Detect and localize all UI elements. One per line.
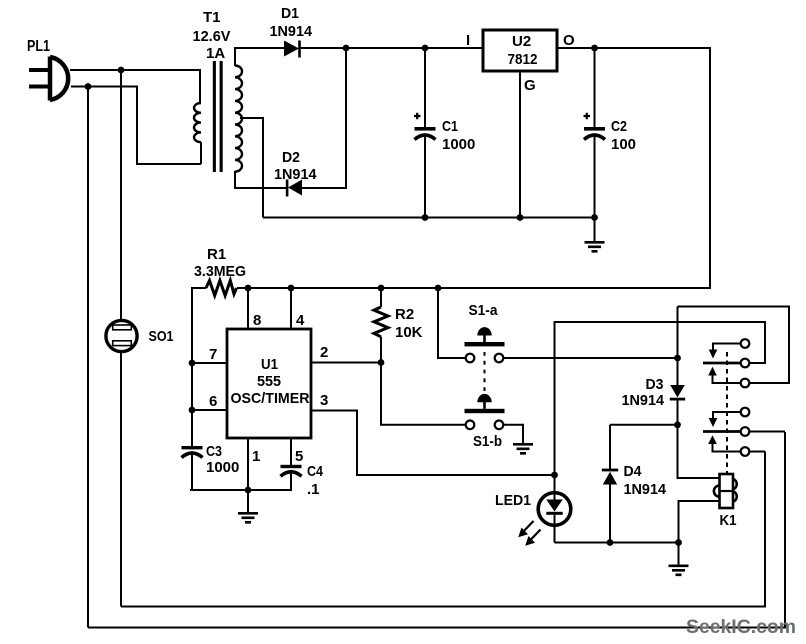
wire AC line1 vertical through SO1	[120, 70, 122, 321]
wire pin 2	[311, 362, 381, 364]
svg-text:7: 7	[209, 346, 217, 363]
node C1 top	[422, 45, 429, 52]
svg-text:SO1: SO1	[149, 328, 174, 345]
node line2 junction	[85, 83, 92, 90]
wire pin 4	[290, 288, 292, 329]
diode D4	[602, 425, 667, 543]
node pin2 / R2 bottom	[378, 359, 385, 366]
wire pin3 net vertical / relay common net	[555, 322, 766, 475]
capacitor C3	[182, 443, 240, 490]
wire 555 bottom rail	[190, 489, 292, 491]
wire pin 7	[192, 362, 227, 364]
wire pin2 node to S1-b	[381, 363, 466, 425]
wire coil top feed	[678, 425, 720, 478]
wire D3 top vertical	[677, 307, 679, 359]
wire pin 6	[192, 409, 227, 411]
op-amp U1 555 timer box	[227, 329, 311, 438]
node pin3 LED junction	[551, 472, 558, 479]
svg-text:U2: U2	[512, 33, 531, 50]
relay contact group 1	[703, 339, 749, 387]
wire LED bottom rail	[555, 542, 679, 544]
wire coil bottom to ground	[679, 501, 720, 543]
node D4 bottom	[607, 539, 614, 546]
capacitor C2	[584, 48, 637, 218]
svg-text:1N914: 1N914	[274, 166, 317, 183]
wire AC line1 bottom rail	[121, 452, 765, 607]
svg-text:S1-a: S1-a	[469, 302, 499, 319]
svg-text:D3: D3	[646, 376, 664, 393]
svg-text:C2: C2	[611, 118, 627, 135]
svg-text:PL1: PL1	[27, 38, 50, 55]
wire U2 output	[237, 48, 710, 288]
wire contact2 bottom to inner rail	[749, 451, 765, 453]
node relay ground	[675, 539, 682, 546]
svg-text:1N914: 1N914	[624, 481, 667, 498]
svg-text:2: 2	[320, 344, 328, 361]
svg-text:3: 3	[320, 392, 328, 409]
wire D4 top to coil node	[610, 424, 678, 426]
wire U2 ground pin	[519, 71, 521, 218]
relay coil K1	[714, 474, 737, 529]
svg-text:100: 100	[611, 136, 636, 153]
wire center tap	[240, 118, 263, 218]
node pin4 rail	[288, 285, 295, 292]
wire contact2 common to outer rail	[749, 431, 785, 433]
svg-text:C3: C3	[206, 443, 222, 460]
wire S1-a to D3 node	[504, 357, 678, 359]
node S1-a / D3 junction	[674, 355, 681, 362]
wire D1 cathode to U2 input rail	[300, 47, 483, 49]
svg-text:1000: 1000	[442, 136, 475, 153]
wire +12V rail drop to S1-a	[438, 288, 466, 358]
ground below C2	[585, 218, 605, 252]
ground relay	[669, 543, 689, 575]
ground below S1-b	[513, 444, 533, 453]
wire AC line2 vertical	[87, 87, 89, 628]
wire pin 8	[247, 288, 249, 329]
wire secondary bottom to D2	[235, 171, 286, 188]
wire S1 dashed link	[484, 352, 486, 391]
svg-text:OSC/TIMER: OSC/TIMER	[231, 390, 310, 407]
node line1 junction	[118, 67, 125, 74]
svg-text:D4: D4	[624, 463, 643, 480]
plug PL1	[27, 38, 68, 101]
svg-text:K1: K1	[720, 512, 737, 529]
svg-text:7812: 7812	[508, 51, 538, 68]
svg-text:S1-b: S1-b	[473, 433, 502, 450]
svg-text:O: O	[563, 32, 575, 49]
svg-text:R1: R1	[207, 246, 226, 263]
svg-text:1N914: 1N914	[622, 392, 665, 409]
capacitor C1	[414, 48, 475, 218]
svg-text:SeekIC.com: SeekIC.com	[686, 616, 796, 638]
wire relay mechanical dashed link	[726, 352, 728, 474]
wire pin 3	[311, 411, 555, 476]
svg-text:555: 555	[257, 373, 281, 390]
svg-text:.1: .1	[307, 481, 320, 498]
node C2 bottom	[591, 214, 598, 221]
node pin8 rail	[245, 285, 252, 292]
wire pin 1	[247, 438, 249, 490]
relay contact group 2	[703, 408, 749, 456]
svg-text:C1: C1	[442, 118, 458, 135]
svg-text:1: 1	[252, 448, 260, 465]
diode D2	[274, 149, 317, 197]
wire D2 to junction	[302, 48, 346, 188]
svg-text:C4: C4	[307, 463, 324, 480]
wire ground rail top section	[263, 217, 595, 219]
socket SO1	[106, 320, 174, 351]
node D1/D2 junction	[343, 45, 350, 52]
svg-text:D1: D1	[281, 5, 299, 22]
node R2 top rail	[378, 285, 385, 292]
resistor R1	[194, 246, 246, 296]
wire pin 5	[290, 438, 292, 465]
wire AC line2 bottom rail	[88, 432, 785, 628]
diode D1	[270, 5, 313, 58]
node C2 top	[591, 45, 598, 52]
wire secondary top to D1	[235, 48, 284, 66]
svg-text:10K: 10K	[395, 324, 423, 341]
diode D3	[622, 358, 686, 425]
node pin7	[189, 360, 196, 367]
transformer T1	[193, 9, 243, 172]
switch S1-a	[465, 302, 505, 362]
svg-text:3.3MEG: 3.3MEG	[194, 263, 246, 280]
ground below pin 1	[238, 490, 258, 522]
wire plug line1 to transformer	[70, 70, 200, 103]
wire plug line2	[71, 87, 201, 165]
svg-text:5: 5	[295, 448, 303, 465]
svg-text:D2: D2	[282, 149, 300, 166]
svg-text:LED1: LED1	[495, 492, 531, 509]
svg-text:12.6V: 12.6V	[193, 28, 231, 45]
node D3 / D4 / coil junction	[674, 421, 681, 428]
node C1 bottom	[422, 214, 429, 221]
node U2 G bottom	[517, 214, 524, 221]
svg-text:R2: R2	[395, 306, 414, 323]
node pin1 ground	[245, 487, 252, 494]
svg-text:G: G	[524, 77, 536, 94]
resistor R2	[374, 288, 423, 363]
switch S1-b	[465, 394, 505, 450]
wire S1-b right to ground	[504, 425, 524, 444]
capacitor C4	[281, 463, 324, 498]
svg-text:4: 4	[296, 312, 305, 329]
svg-text:1A: 1A	[206, 45, 225, 62]
svg-text:T1: T1	[203, 9, 221, 26]
svg-text:8: 8	[253, 312, 261, 329]
svg-text:U1: U1	[261, 356, 278, 373]
svg-text:1N914: 1N914	[270, 23, 313, 40]
svg-text:I: I	[466, 32, 470, 49]
node pin6	[189, 407, 196, 414]
wire relay top loop rail	[678, 307, 790, 384]
LED1	[495, 475, 571, 546]
svg-text:6: 6	[209, 393, 217, 410]
node S1-a drop rail	[435, 285, 442, 292]
wire R1 left / rail start	[192, 288, 206, 446]
svg-text:1000: 1000	[206, 459, 239, 476]
regulator U2	[466, 30, 575, 94]
